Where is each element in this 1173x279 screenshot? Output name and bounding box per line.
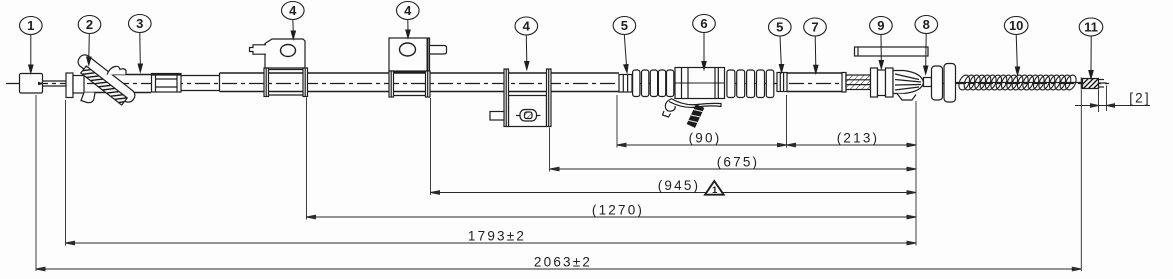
bracket B1 clamp	[264, 68, 308, 97]
callout bubbles	[20, 2, 1103, 37]
svg-text:11: 11	[1084, 20, 1098, 35]
svg-text:(1270): (1270)	[592, 203, 644, 218]
svg-text:5: 5	[621, 18, 628, 33]
bracket B1 tab	[250, 45, 267, 54]
collet fin	[897, 94, 916, 101]
leader 7	[814, 36, 818, 73]
lever pin bar	[855, 47, 929, 56]
leader 4b	[406, 20, 410, 39]
svg-text:(675): (675)	[717, 155, 760, 170]
extension x36	[35, 95, 37, 271]
svg-text:1: 1	[712, 185, 718, 196]
callout 8	[915, 16, 938, 34]
grommet top wing	[107, 66, 126, 74]
bellows left	[633, 70, 674, 97]
adjuster hatched block	[152, 74, 182, 93]
threaded rod	[846, 75, 871, 90]
bracket B3 tab	[490, 112, 504, 121]
extension and dimension lines	[36, 86, 1107, 272]
leader 5b	[779, 36, 783, 73]
callout 6	[693, 15, 716, 33]
leader 6	[702, 33, 706, 70]
svg-text:9: 9	[877, 18, 884, 33]
callout leaders	[29, 20, 1094, 79]
dimension texts	[468, 91, 1151, 270]
clip hook under damper	[663, 99, 722, 118]
callout 9	[870, 17, 893, 35]
svg-text:8: 8	[923, 17, 930, 32]
clip stub hatched	[687, 104, 705, 128]
svg-text:(945): (945)	[658, 178, 701, 193]
svg-text:[2]: [2]	[1129, 91, 1151, 106]
leader 10	[1015, 35, 1019, 76]
callout 3	[129, 15, 152, 33]
disc capsule 1	[932, 66, 943, 100]
extension x430.5	[430, 98, 432, 195]
callout 2	[78, 16, 101, 34]
extension x1106.5	[1106, 86, 1108, 112]
bracket B2 clamp	[389, 71, 430, 97]
bracket B1 hole	[281, 45, 296, 57]
svg-text:(213): (213)	[837, 131, 880, 146]
wide conduit left run	[220, 73, 620, 92]
callout 4c	[515, 17, 538, 35]
svg-text:5: 5	[776, 20, 783, 35]
leader 11	[1089, 36, 1093, 79]
svg-text:3: 3	[136, 16, 143, 31]
thin tube	[181, 73, 220, 92]
seal ring 5a	[619, 75, 632, 93]
extension x916	[915, 101, 917, 246]
svg-text:6: 6	[700, 16, 707, 31]
conduit segment under grommet	[84, 75, 151, 93]
extension x786.5	[786, 95, 788, 148]
extension x1098.5	[1098, 90, 1100, 113]
extension x1081.3	[1080, 90, 1082, 271]
callout 11	[1079, 18, 1103, 36]
bracket B3 (part 4) below cable	[490, 69, 551, 127]
collet cone	[893, 71, 924, 101]
dim line (945)	[431, 191, 917, 195]
callout 5a	[613, 17, 636, 35]
svg-text:1: 1	[27, 18, 34, 33]
svg-text:1793±2: 1793±2	[468, 229, 526, 244]
svg-text:10: 10	[1009, 18, 1023, 33]
spring through wire	[956, 82, 1082, 84]
warning triangle 1	[705, 181, 724, 196]
bracket B1 (part 4) plate	[250, 39, 306, 68]
dim line 1793	[66, 241, 917, 245]
bellows right	[727, 70, 774, 98]
svg-text:2063±2: 2063±2	[534, 255, 592, 270]
seal ring 5b	[777, 73, 787, 92]
callout 4a	[282, 2, 305, 20]
part 1 end fitting box	[20, 74, 46, 94]
callout 5b	[769, 18, 792, 36]
grommet part 2 main band	[76, 52, 138, 104]
washer 2	[886, 68, 894, 97]
disc capsule 2	[944, 64, 956, 103]
centerline	[6, 83, 1110, 85]
leader 1	[29, 35, 33, 74]
callout 7	[804, 18, 827, 36]
callout 1	[20, 17, 43, 35]
leader 4a	[291, 20, 295, 40]
svg-text:(90): (90)	[689, 131, 722, 146]
cable joint	[924, 78, 932, 87]
dim line (675)	[550, 167, 916, 171]
washer 1	[871, 68, 878, 97]
conduit end cap	[842, 73, 846, 93]
bracket B2 tab	[430, 46, 447, 55]
leader 8	[924, 34, 928, 75]
leader 2	[87, 34, 91, 66]
leader 9	[879, 35, 883, 69]
extension x306.5	[306, 98, 308, 220]
callout 4b	[397, 2, 420, 20]
end fitting part 11	[1081, 78, 1106, 90]
conduit run right of bellows	[787, 73, 842, 92]
dim line (90)/(213)	[617, 143, 916, 147]
dim line [2]	[1075, 104, 1150, 108]
wire rod between box and flange	[43, 81, 67, 86]
ferrule flange	[66, 73, 73, 98]
svg-text:4: 4	[404, 3, 412, 18]
bracket B3 slot hole	[520, 110, 537, 122]
svg-text:4: 4	[289, 3, 297, 18]
nut	[878, 70, 886, 96]
svg-text:7: 7	[811, 20, 818, 35]
extension x65.5	[65, 100, 67, 246]
step block	[73, 76, 84, 94]
leader 3	[138, 33, 142, 73]
grommet part 2 hatched band	[81, 66, 128, 105]
svg-text:4: 4	[523, 19, 531, 34]
bracket B2 hole	[400, 43, 416, 56]
leader 4c	[525, 35, 529, 70]
dim line (1270)	[307, 215, 917, 219]
extension x549.5	[549, 128, 551, 172]
bracket B2 (part 4) plate	[389, 38, 447, 71]
extension x617	[616, 95, 618, 148]
svg-text:2: 2	[86, 17, 93, 32]
grommet bottom wing	[81, 93, 95, 103]
callout 10	[1004, 17, 1028, 35]
leader 5a	[624, 35, 628, 73]
damper cylinder part 6	[675, 68, 725, 99]
dim line 2063	[36, 267, 1081, 271]
spring part 10 coils	[957, 73, 1079, 91]
